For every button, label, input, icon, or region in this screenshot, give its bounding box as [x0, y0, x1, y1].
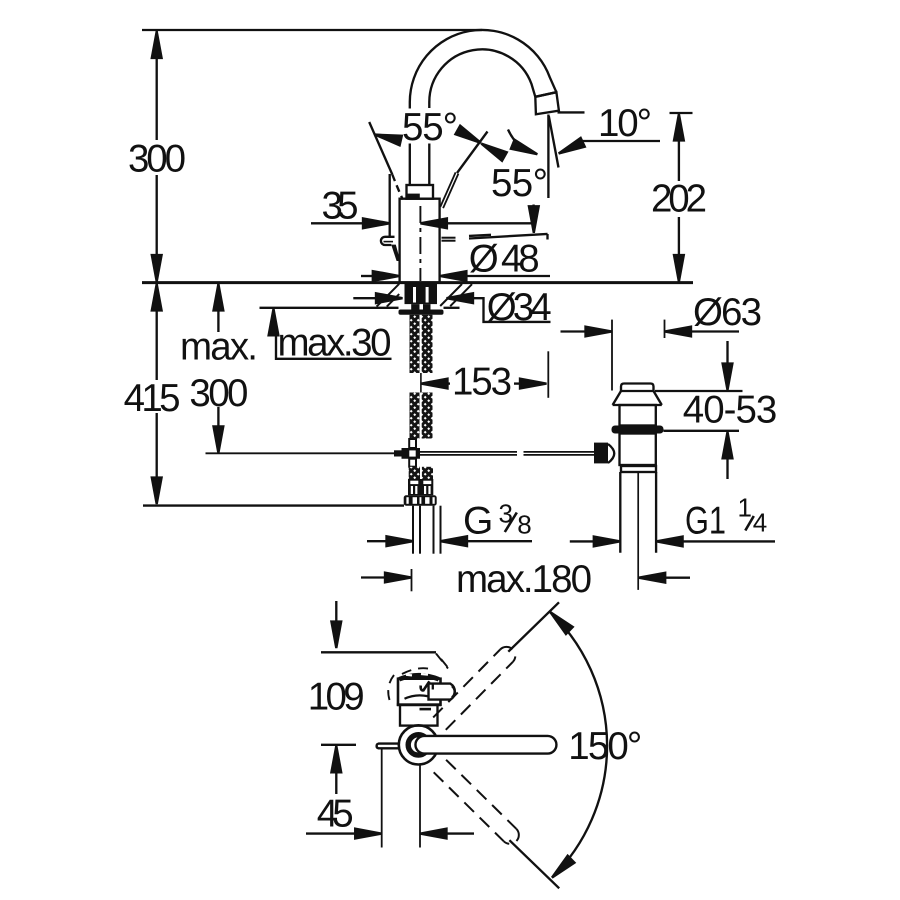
- drain tailpipe: [620, 472, 656, 553]
- dimension 45: [306, 829, 474, 839]
- label G1 1/4: [685, 492, 767, 542]
- svg-text:153: 153: [452, 361, 512, 404]
- 109 lower reference line: [321, 744, 356, 746]
- drain flange ring: [612, 426, 664, 434]
- lever tilt phantom dashed curve left: [392, 175, 403, 200]
- leader arrow for lower 55deg: [529, 205, 539, 233]
- dimension 35 extension line: [389, 174, 391, 236]
- dimension 153: [421, 379, 547, 389]
- spout end cut line: [535, 92, 556, 97]
- spout bar (top view): [415, 736, 556, 754]
- dimension max.300: [214, 284, 224, 453]
- aerator plane reference line: [469, 234, 548, 239]
- collar below riser: [407, 185, 434, 199]
- top view lever housing: [397, 674, 442, 705]
- dimension diameter 63: [561, 320, 740, 391]
- countertop hatching left: [377, 284, 400, 307]
- phantom spout position upper: [433, 647, 515, 730]
- dimension 415: [152, 284, 162, 504]
- dimension max.30 leader: [269, 309, 392, 359]
- arrow diameter 34 right: [447, 293, 474, 303]
- swivel range extension line lower: [509, 840, 559, 888]
- svg-text:109: 109: [308, 676, 365, 719]
- water stream vertical reference line: [547, 115, 549, 199]
- hose connector flange: [404, 495, 437, 505]
- dimension 109 lower arrow: [331, 746, 341, 794]
- drain lower body: [620, 434, 656, 466]
- dimension max.180: [361, 569, 690, 591]
- phantom spout position lower: [434, 760, 519, 844]
- aerator plane double tick: [469, 235, 491, 236]
- top reference line (spout height datum): [142, 29, 482, 31]
- hose braid segment 3: [409, 467, 433, 479]
- hose centerline in gap: [420, 373, 422, 393]
- black notch on collar: [407, 194, 420, 199]
- mounting shank through counter: [405, 284, 438, 310]
- dimension G3/8: [367, 536, 532, 546]
- svg-text:G: G: [463, 499, 493, 542]
- dimension 300 (spout height): [152, 31, 162, 282]
- svg-text:max.30: max.30: [278, 322, 392, 365]
- spout outer arc: [410, 30, 557, 102]
- reference plane double stub at body: [442, 238, 456, 241]
- 109 upper reference line: [321, 651, 436, 653]
- phantom dashes around cap: [388, 654, 451, 701]
- drain collar: [621, 466, 656, 472]
- hose connector nuts: [408, 479, 433, 495]
- dimension G1 1/4: [570, 537, 775, 547]
- svg-text:45: 45: [317, 793, 354, 836]
- hose end reference line: [143, 504, 404, 506]
- countertop bottom line: [260, 307, 460, 309]
- svg-text:G1: G1: [685, 500, 726, 543]
- svg-text:max.: max.: [180, 326, 258, 369]
- swivel bearing inner ring: [408, 735, 428, 755]
- spout inner arc: [429, 49, 535, 102]
- aerator plane end tick: [546, 234, 548, 240]
- aerator end piece: [535, 92, 559, 114]
- side lever stub (top view): [377, 744, 400, 749]
- dimension 45 extension lines: [382, 749, 420, 848]
- faucet spout riser tube: [409, 102, 411, 109]
- svg-text:8: 8: [517, 510, 531, 540]
- lever tilt phantom line left: [369, 122, 392, 175]
- svg-text:35: 35: [322, 185, 359, 228]
- drain centerline: [637, 472, 639, 590]
- countertop hatching right: [440, 284, 472, 306]
- countertop line: [142, 281, 693, 284]
- drain upper body: [620, 405, 656, 426]
- svg-text:40-53: 40-53: [683, 388, 778, 431]
- svg-text:Ø34: Ø34: [487, 286, 552, 329]
- svg-text:55°: 55°: [402, 106, 458, 149]
- swivel arc 150 deg: [547, 609, 607, 882]
- faucet body: [400, 199, 440, 283]
- top view lever head: [429, 684, 455, 700]
- dimension diameter 48: [361, 271, 550, 281]
- svg-text:300: 300: [189, 372, 248, 415]
- swivel range extension line upper: [508, 602, 559, 651]
- lever lift arrow hook: [421, 681, 430, 690]
- dimension 40-53: [655, 341, 743, 479]
- slash of G1 1/4: [745, 516, 754, 531]
- svg-text:max.180: max.180: [456, 558, 592, 601]
- svg-text:202: 202: [651, 177, 707, 220]
- svg-text:4: 4: [753, 507, 767, 537]
- svg-text:Ø 48: Ø 48: [469, 238, 540, 281]
- svg-text:55°: 55°: [491, 162, 548, 205]
- spout tip level tick: [558, 111, 585, 113]
- lever tilt phantom line right (thin extension): [457, 132, 488, 174]
- drain pop-up plug cap: [621, 384, 654, 392]
- pop-up rod reference line: [206, 452, 395, 454]
- label G 3/8: [463, 499, 532, 543]
- mounting washer: [399, 310, 444, 315]
- pop-up rod horizontal: [420, 452, 594, 455]
- pop-up rod cross linkage: [394, 439, 420, 467]
- swivel indicator arc near tip: [508, 130, 539, 159]
- dimension 35: [311, 218, 532, 228]
- drain side port: [594, 443, 614, 464]
- drain funnel: [613, 391, 662, 405]
- top view neck: [400, 705, 438, 726]
- dimension 202 (outlet height): [670, 113, 693, 282]
- svg-text:Ø63: Ø63: [693, 291, 762, 334]
- angle bowtie arrows 55deg: [455, 126, 483, 148]
- svg-text:300: 300: [128, 138, 186, 181]
- body centerline: [419, 206, 421, 281]
- svg-text:10°: 10°: [598, 102, 652, 145]
- flexible hoses segment 2: [410, 393, 433, 439]
- swivel bearing outer circle: [399, 725, 438, 764]
- svg-text:1: 1: [738, 492, 752, 522]
- leader diameter 34: [447, 298, 551, 322]
- dimension diameter 34 left arrow: [353, 293, 402, 303]
- flexible hoses segment 1: [410, 315, 433, 373]
- angle arrow left 55deg: [374, 130, 402, 146]
- svg-text:150°: 150°: [568, 725, 642, 768]
- slash of G3/8: [505, 513, 517, 533]
- side lever: [381, 237, 400, 261]
- stream extension tick: [547, 351, 549, 398]
- svg-text:415: 415: [124, 377, 181, 420]
- dimension 109 upper: [331, 601, 341, 648]
- water stream 10-degree line: [549, 116, 559, 168]
- supply tails G3/8: [413, 506, 441, 554]
- lever tilted position double line: [440, 172, 458, 208]
- leader for 10-degree label: [557, 138, 660, 158]
